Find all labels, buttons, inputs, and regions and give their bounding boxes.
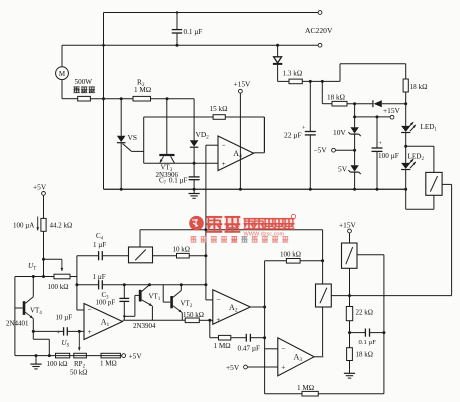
svg-text:1 µF: 1 µF xyxy=(93,273,106,281)
svg-text:1 µF: 1 µF xyxy=(93,241,106,249)
svg-text:15 kΩ: 15 kΩ xyxy=(210,105,228,113)
svg-text:+15V: +15V xyxy=(383,106,401,115)
svg-text:+15V: +15V xyxy=(339,221,357,230)
svg-text:−: − xyxy=(281,344,285,353)
svg-text:22 µF: 22 µF xyxy=(284,131,302,140)
svg-text:44.2 kΩ: 44.2 kΩ xyxy=(50,222,73,230)
svg-text:5V: 5V xyxy=(338,165,348,174)
svg-text:−5V: −5V xyxy=(314,146,328,155)
svg-text:1 MΩ: 1 MΩ xyxy=(214,342,231,350)
svg-text:100 kΩ: 100 kΩ xyxy=(48,283,69,291)
svg-text:100 µF: 100 µF xyxy=(378,152,399,160)
svg-text:VS: VS xyxy=(128,133,137,142)
svg-text:0.1 µF: 0.1 µF xyxy=(359,339,377,346)
svg-text:0.1 µF: 0.1 µF xyxy=(184,28,203,36)
svg-text:+: + xyxy=(222,159,226,168)
svg-text:10 kΩ: 10 kΩ xyxy=(173,246,190,254)
svg-text:+: + xyxy=(216,315,220,324)
svg-text:18 kΩ: 18 kΩ xyxy=(356,351,373,359)
svg-text:100 kΩ: 100 kΩ xyxy=(280,251,301,259)
svg-text:+5V: +5V xyxy=(129,352,143,361)
svg-text:1 MΩ: 1 MΩ xyxy=(134,86,151,94)
svg-text:10V: 10V xyxy=(333,128,346,137)
svg-text:M: M xyxy=(59,70,66,78)
svg-text:2N3904: 2N3904 xyxy=(133,322,156,330)
svg-text:+: + xyxy=(88,327,92,336)
svg-text:1 MΩ: 1 MΩ xyxy=(297,384,314,392)
svg-text:+: + xyxy=(281,363,285,372)
svg-text:+5V: +5V xyxy=(226,363,240,372)
svg-text:100 kΩ: 100 kΩ xyxy=(47,360,68,368)
svg-text:AC220V: AC220V xyxy=(305,26,333,35)
svg-text:100 pF: 100 pF xyxy=(96,299,116,307)
svg-text:0.1 µF: 0.1 µF xyxy=(169,177,188,185)
svg-text:+5V: +5V xyxy=(33,183,47,192)
svg-text:−: − xyxy=(222,140,226,149)
svg-text:−: − xyxy=(88,305,92,314)
svg-text:18 kΩ: 18 kΩ xyxy=(410,83,428,91)
svg-text:−: − xyxy=(216,295,220,304)
svg-text:2N4401: 2N4401 xyxy=(6,320,29,328)
svg-text:500W: 500W xyxy=(75,78,93,86)
svg-text:1.3 kΩ: 1.3 kΩ xyxy=(283,70,303,78)
svg-text:22 kΩ: 22 kΩ xyxy=(356,309,373,317)
svg-text:+15V: +15V xyxy=(234,80,252,89)
svg-text:50 kΩ: 50 kΩ xyxy=(70,369,87,377)
svg-text:100 µA: 100 µA xyxy=(13,222,34,230)
svg-text:0.47 µF: 0.47 µF xyxy=(238,345,261,353)
svg-text:10 µF: 10 µF xyxy=(56,314,73,322)
svg-text:18 kΩ: 18 kΩ xyxy=(327,94,345,102)
svg-text:1 MΩ: 1 MΩ xyxy=(100,360,117,368)
